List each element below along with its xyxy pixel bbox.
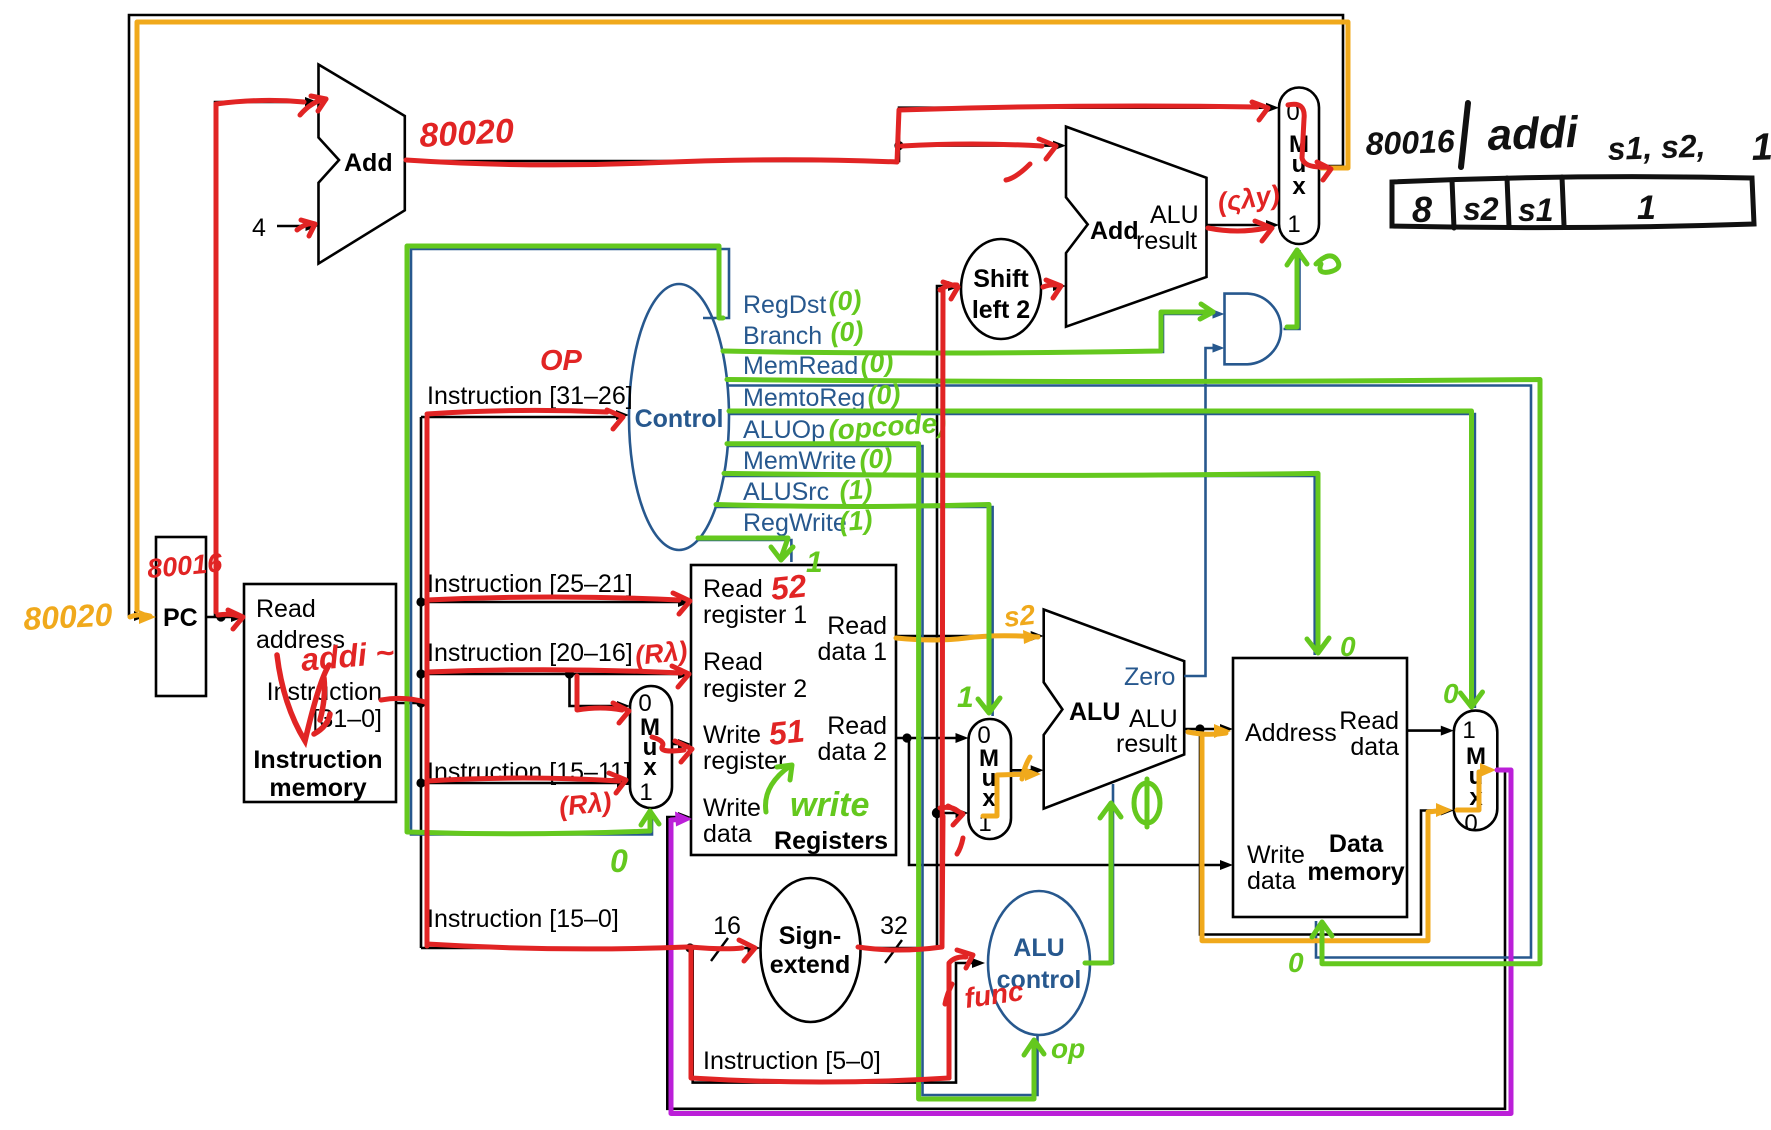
svg-text:s2: s2: [1463, 191, 1499, 227]
svg-text:1: 1: [1637, 189, 1656, 227]
svg-text:80016: 80016: [1365, 123, 1455, 162]
svg-text:result: result: [1116, 730, 1177, 758]
svg-text:Read: Read: [256, 595, 316, 623]
svg-text:memory: memory: [269, 774, 366, 802]
svg-text:x: x: [1292, 173, 1306, 200]
svg-text:data 2: data 2: [817, 738, 887, 766]
svg-text:(0): (0): [827, 285, 862, 317]
svg-text:Registers: Registers: [774, 827, 888, 855]
svg-text:addi: addi: [1487, 108, 1580, 160]
svg-text:s1: s1: [1518, 192, 1554, 228]
svg-text:1: 1: [1287, 211, 1300, 238]
svg-text:Instruction: Instruction: [253, 746, 382, 774]
svg-text:data: data: [1350, 733, 1399, 761]
svg-text:Instruction [5–0]: Instruction [5–0]: [703, 1047, 881, 1075]
svg-text:s2: s2: [1002, 599, 1037, 633]
svg-text:4: 4: [252, 214, 266, 242]
svg-text:x: x: [643, 754, 657, 781]
svg-text:Read: Read: [1339, 707, 1399, 735]
svg-text:ALU: ALU: [1013, 934, 1064, 962]
svg-text:(0): (0): [859, 347, 894, 379]
svg-text:MemRead: MemRead: [743, 352, 858, 380]
svg-text:data 1: data 1: [817, 638, 887, 666]
svg-text:write: write: [790, 786, 869, 824]
svg-text:(Rλ): (Rλ): [633, 636, 688, 671]
svg-text:MemtoReg: MemtoReg: [743, 384, 865, 412]
svg-text:RegDst: RegDst: [743, 291, 826, 319]
svg-text:32: 32: [880, 912, 908, 940]
svg-text:16: 16: [713, 912, 741, 940]
svg-text:1: 1: [957, 681, 974, 714]
svg-text:ALUSrc: ALUSrc: [743, 478, 829, 506]
svg-text:Read: Read: [827, 712, 887, 740]
svg-text:Read: Read: [703, 575, 763, 603]
svg-text:52: 52: [769, 567, 808, 607]
svg-text:8: 8: [1412, 189, 1432, 230]
svg-text:80020: 80020: [418, 112, 514, 155]
svg-text:op: op: [1051, 1033, 1085, 1064]
svg-text:51: 51: [767, 712, 806, 752]
svg-text:0: 0: [610, 843, 628, 879]
svg-text:1: 1: [639, 779, 652, 806]
svg-text:x: x: [982, 785, 996, 812]
svg-text:ALU: ALU: [1150, 201, 1199, 229]
svg-text:Write: Write: [703, 721, 761, 749]
svg-text:Read: Read: [827, 612, 887, 640]
svg-text:Add: Add: [344, 149, 393, 177]
svg-text:Data: Data: [1329, 830, 1384, 858]
svg-text:1: 1: [1751, 126, 1771, 169]
svg-text:s1, s2,: s1, s2,: [1607, 128, 1706, 167]
svg-text:Instruction [15–0]: Instruction [15–0]: [427, 905, 619, 933]
svg-text:0: 0: [1464, 810, 1477, 837]
svg-text:Branch: Branch: [743, 322, 822, 350]
svg-text:Instruction [20–16]: Instruction [20–16]: [427, 639, 633, 667]
svg-text:ALU: ALU: [1129, 705, 1178, 733]
svg-text:1: 1: [1462, 717, 1475, 744]
svg-text:0: 0: [1288, 947, 1304, 978]
svg-text:OP: OP: [540, 345, 583, 377]
svg-text:Add: Add: [1090, 217, 1139, 245]
svg-text:Zero: Zero: [1124, 663, 1175, 691]
svg-text:(0): (0): [829, 316, 864, 348]
svg-text:Shift: Shift: [973, 265, 1029, 293]
svg-text:Sign-: Sign-: [779, 922, 842, 950]
svg-text:MemWrite: MemWrite: [743, 447, 856, 475]
svg-text:0: 0: [638, 690, 651, 717]
svg-text:PC: PC: [163, 604, 198, 632]
svg-text:(0): (0): [866, 379, 901, 411]
svg-text:Write: Write: [1247, 841, 1305, 869]
svg-text:Read: Read: [703, 648, 763, 676]
svg-text:0: 0: [1443, 678, 1459, 709]
svg-text:80020: 80020: [22, 596, 113, 637]
svg-text:Instruction [31–26]: Instruction [31–26]: [427, 382, 633, 410]
svg-text:register 2: register 2: [703, 675, 807, 703]
svg-text:(Rλ): (Rλ): [557, 787, 612, 822]
svg-text:ALUOp: ALUOp: [743, 416, 825, 444]
svg-text:(1): (1): [838, 474, 873, 506]
svg-text:memory: memory: [1307, 858, 1404, 886]
svg-text:result: result: [1136, 227, 1197, 255]
svg-text:1: 1: [806, 546, 823, 579]
svg-text:left 2: left 2: [972, 296, 1030, 324]
svg-text:Write: Write: [703, 794, 761, 822]
svg-text:Address: Address: [1245, 719, 1337, 747]
svg-text:Instruction [25–21]: Instruction [25–21]: [427, 570, 633, 598]
svg-text:(1): (1): [838, 505, 873, 537]
svg-text:data: data: [1247, 867, 1296, 895]
svg-text:0: 0: [1340, 631, 1356, 662]
svg-text:Control: Control: [635, 405, 724, 433]
svg-text:ALU: ALU: [1069, 698, 1120, 726]
svg-text:register 1: register 1: [703, 601, 807, 629]
svg-text:(0): (0): [858, 443, 893, 475]
svg-text:RegWrite: RegWrite: [743, 509, 847, 537]
svg-text:extend: extend: [770, 951, 851, 979]
svg-text:data: data: [703, 820, 752, 848]
